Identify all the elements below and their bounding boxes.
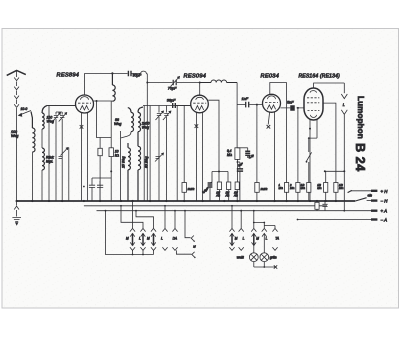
tube V3 RE034 [263,94,281,112]
wire x173.8 below [176,106,178,202]
svg-text:MΩ: MΩ [227,153,233,157]
label weiss [237,256,244,260]
wire x120.6 to bus [121,131,127,201]
resistor R6b [235,182,239,201]
wire V1 anode right to coil [94,100,113,102]
resistor R13 [324,171,328,201]
label L j4 [161,237,163,241]
wire jack feed 4 [164,205,166,228]
svg-text:L: L [161,237,163,241]
label R10 [289,183,294,190]
svg-text:Weg: Weg [11,134,18,138]
trimmer C8 lower [155,153,164,162]
capacitor C4 bypass [89,178,111,201]
wire L1 bottom to bus [31,152,33,201]
wire vertical x49 [48,106,50,202]
svg-text:/42: /42 [215,194,220,198]
svg-text:M: M [235,237,238,241]
label 0,1uF [248,153,255,159]
speaker terminal hooks [341,83,347,171]
label gruen [270,256,277,260]
label RES 094 [184,74,207,80]
wire V2 anode top [199,82,201,96]
wire x96.5 anode branch down [96,100,112,138]
wire jack feed staircase 2 [120,205,143,228]
wire L3 bottom to bus [41,170,43,201]
capacitor C11 0.5uF block [208,183,213,187]
wire V3 cathode legs [268,112,274,201]
wire L2 to L3 [41,129,43,148]
label 70pF [168,86,177,90]
wire grid line tube V1 [47,105,76,107]
lamp LP2 green [260,253,269,262]
wire sub-bus line4 to terminal -A [298,219,378,221]
svg-text:MΩ: MΩ [339,186,343,190]
label 30pF [133,73,142,77]
trimmer C3 feedback [59,148,69,159]
svg-text:kΩ: kΩ [115,154,120,158]
node x cathode V3 [267,125,271,129]
antenna coil tap arrow [19,111,31,117]
wire x150.1 to bus [149,106,151,202]
label 100 Weg [11,130,18,138]
label R8 2M [260,187,268,191]
svg-text:10-0: 10-0 [21,107,28,111]
jack J9 [262,228,267,252]
wire choke down x111.2 [110,101,112,148]
wire jack feed staircase 3 [136,211,154,228]
wire x237.1 down [236,83,238,148]
transformer T1 secondary coil [138,107,143,132]
wire speaker return to line [324,170,346,210]
node bus junction dots [16,200,338,202]
label R9 [279,183,283,190]
jack J6 [229,228,234,250]
tube V1 RES894 [76,95,94,113]
ground [12,201,21,225]
jack J4 [162,228,167,250]
svg-text:Lumophon: Lumophon [356,96,365,139]
switch S4 DA contact lower [176,250,195,258]
jack J8 [251,228,256,252]
jack J3 [151,228,156,254]
label 0,4 M [227,149,233,157]
tube V4 RES164 output [304,88,323,120]
wire C14 stubs [237,161,240,201]
resistor R5 [217,172,221,202]
svg-text:L: L [243,237,245,241]
svg-text:L: L [266,237,268,241]
terminal +H line [348,190,378,192]
coil L1 antenna primary [31,112,35,153]
label M j3 [147,237,150,241]
node junction rail-choke [111,72,113,74]
label RE034 [261,74,280,80]
resistor R7 anode load 0.4M [235,148,240,182]
svg-text:Weg: Weg [114,122,121,126]
label TA j10 [275,237,279,241]
resistor R9 [285,183,289,202]
coil L2 grid secondary [42,106,47,130]
wire jack bottom return [105,210,154,256]
wire x68.8 to bus [68,148,70,202]
label L j7 [243,237,245,241]
tube V2 electrodes [193,97,206,110]
label +H [381,189,389,194]
label ein [368,193,373,197]
tube V2 RES094 [191,95,209,113]
trimmer C2 [59,112,67,124]
terminal +A dash [371,209,377,211]
label 1nF c15 [242,97,249,101]
capacitor C13 0.1uF [245,151,250,155]
label L j9 [266,237,268,241]
node x cathode V1 [80,125,84,129]
svg-text:RES094: RES094 [184,74,207,80]
trimmer C10 70pF on y82.5 [147,77,199,87]
label 0,5uF [201,186,209,194]
svg-text:DA: DA [173,237,177,241]
jack J7 [239,228,244,250]
svg-text:MΩ: MΩ [290,186,294,190]
coil L3 feedback [42,148,44,170]
wire V2 grid stub [175,105,190,107]
terminal -A dash [371,218,377,220]
svg-text:+ A: + A [381,209,388,214]
wire V1 cathode legs [82,113,88,201]
svg-text:− A: − A [381,218,388,223]
lamp LP1 white [249,253,258,262]
svg-text:38pF: 38pF [167,99,176,103]
resistor R12 [307,183,311,202]
jack J10 [272,228,277,250]
label -H [381,199,389,204]
label L j2 [139,237,141,241]
capacitor C9 38pF [173,103,176,108]
label 2M R3 [187,187,195,191]
label Rueck kopl [46,156,54,164]
svg-text:RES164 (RE134): RES164 (RE134) [299,74,341,80]
wire antenna down-lead with break chevrons [14,71,19,114]
svg-text:/42: /42 [225,194,230,198]
label RES 894 [57,73,80,79]
svg-text:L: L [139,237,141,241]
wire C13 stubs [237,148,247,158]
resistor R11 [334,183,338,202]
transformer T2 secondary coil [138,132,141,201]
wire trimmer C1 to bus [55,124,57,201]
label 38pF [167,99,176,103]
resistor R2 10k [109,148,113,157]
label 10 kOhm [115,150,120,158]
wire V4 filament legs [309,120,317,201]
wire x297.9 to resistor [297,108,299,183]
wire R2 to bus [110,157,112,201]
svg-text:grün: grün [270,256,277,260]
node dot 5nF junction [297,107,299,109]
label L speaker [343,103,345,107]
capacitor C16 5nF [281,105,305,111]
label R12 [301,183,305,190]
svg-text:TA: TA [275,237,279,241]
svg-text:5nF: 5nF [287,101,294,105]
capacitor C15 1nF grid V3 [237,102,262,108]
wire C11 to bus [210,182,212,201]
label R13 [317,183,321,190]
label M j8 [256,237,259,241]
antenna [7,70,26,75]
svg-text:RE034: RE034 [261,74,280,80]
capacitor C5 bypass [97,181,103,201]
svg-text:MΩ: MΩ [317,186,321,190]
wire rail after cap with curl [131,71,147,74]
resistor R8 grid leak V3 [255,105,259,201]
wire feed cluster2 col2 [240,210,242,228]
label +A [381,209,388,214]
wire grid bias switch branch [308,137,317,152]
svg-text:80 Weg: 80 Weg [145,156,149,168]
wire V2 cathode legs [196,112,202,201]
svg-text:weiß: weiß [237,256,244,260]
svg-text:− H: − H [381,199,389,204]
svg-text:ein: ein [368,193,373,197]
svg-text:RES894: RES894 [57,73,80,79]
label 56 Weg [114,118,121,126]
label Lumophon brand [356,96,365,139]
wire jack feed 5 [174,210,176,228]
wire top rail [85,72,128,74]
node dot grid junction [256,104,258,106]
wire feed cluster2 col1 [231,205,233,228]
svg-text:70pF: 70pF [168,86,177,90]
wire antenna lead to bus [16,114,18,201]
node dot bus x84 [83,186,85,188]
tube V4 electrodes [307,91,319,118]
wire V1 grid stub left [47,105,76,107]
transformer T2 primary coil [128,143,130,201]
wire main earth bus [17,200,356,202]
svg-text:M: M [256,237,259,241]
wire vertical x147.3 to bus [146,74,148,201]
wire V4 anode right [323,103,336,182]
svg-text:+ H: + H [381,189,389,194]
node x lamp return end [274,265,277,268]
tube V3 electrodes [265,96,278,109]
svg-text:Weg: Weg [142,126,149,130]
wire trimmer C2 to bus [56,112,62,201]
svg-text:30pF: 30pF [133,73,142,77]
node x cathode V2 [195,124,199,128]
wire anode bracket [212,171,228,183]
label R5 [215,191,220,198]
resistor R14 below bus [315,201,319,211]
svg-text:2M/2: 2M/2 [260,187,268,191]
svg-text:M: M [126,237,129,241]
svg-text:1nF: 1nF [242,97,249,101]
resistor R10 [296,183,300,202]
label 25 Weg [122,156,126,169]
wire sub-bus line2 [84,205,327,207]
wire T1 primary bottom [127,132,131,137]
coil L4 anode choke [112,73,115,101]
jack J5 [172,228,177,250]
label 2x50 Weg [141,122,150,130]
wire feed cluster2 col3-5 [253,210,275,228]
resistor R6 [227,182,231,201]
wire sub-bus line3 to terminal +A [97,210,378,212]
label 80 Weg [145,156,149,168]
capacitor 30pF [128,71,131,76]
wire V4 anode top [314,83,345,88]
label -A [381,218,388,223]
label R6b [233,191,238,198]
wire V3 anode top [270,83,287,95]
trimmer C6 [156,106,164,202]
wire x144.2 to bus [143,106,145,202]
tube V1 electrodes [78,97,91,110]
svg-text:M: M [147,237,150,241]
coil L5 HF choke horizontal [200,80,237,83]
wire lamp return [254,262,276,268]
jack J1 [130,228,135,254]
label R11 [339,183,343,190]
jack J2 [140,228,145,254]
svg-text:/42: /42 [233,194,238,198]
label 5nF [287,101,294,105]
svg-text:MΩ: MΩ [279,186,283,190]
label RES 164 [299,74,341,80]
capacitor C17 below bus [322,200,327,211]
switch S2 blade [306,152,312,182]
label M s4 [193,244,196,248]
label B24 model [353,143,368,172]
node line3 junction dots [135,210,345,221]
label DA j5 [173,237,177,241]
label R6 [225,191,230,198]
node dot rail x147.3 [146,82,148,84]
switch S1 ein main [356,198,378,201]
resistor R3 grid leak [182,106,186,202]
wire V2 anode right branch [208,100,219,171]
transformer T1 primary coil [128,108,134,132]
label 1nF c14 [237,162,243,168]
wire x286.6 down to bus [286,83,288,183]
svg-text:B 24: B 24 [353,143,368,172]
wire jack feed staircase 1 [132,200,134,228]
svg-text:25 Weg: 25 Weg [122,156,126,169]
svg-text:kopl.: kopl. [46,160,53,164]
trimmer C7 [163,106,171,202]
resistor R1 box small [98,138,102,202]
svg-text:L: L [343,103,345,107]
switch S3 DA contact upper [184,210,195,242]
label M j1 [126,237,129,241]
trimmer C1 [53,112,61,124]
capacitor C14 1nF [237,169,243,171]
label M j6 [235,237,238,241]
label 110 Weg [47,116,54,124]
wire V1 anode to top rail [84,73,86,95]
svg-text:2M/2: 2M/2 [187,187,195,191]
svg-text:MΩ: MΩ [301,186,305,190]
wire grid coupling line y105.5 [143,105,191,107]
label tap 10-0 [21,107,28,111]
